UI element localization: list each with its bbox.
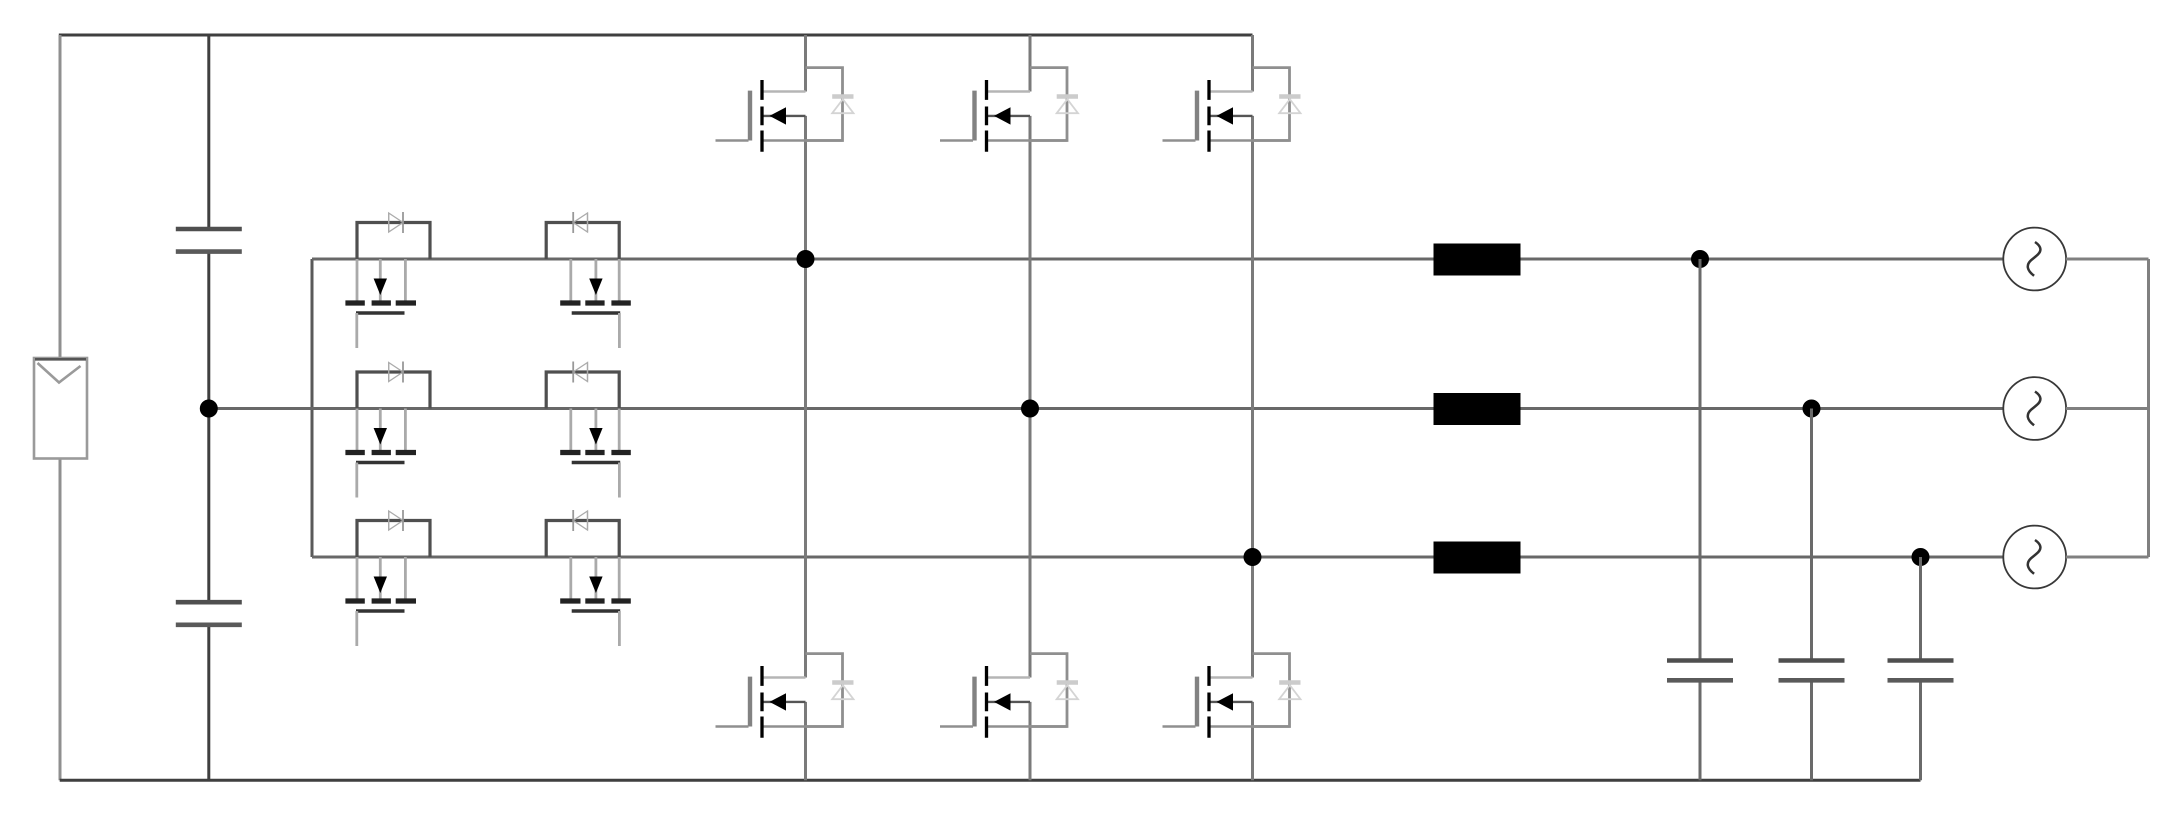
capacitor C1 (upper DC-link): [176, 229, 242, 252]
transistor Q6 (leg C bottom): [1163, 654, 1301, 738]
wire: top DC+ rail: [59, 34, 1253, 37]
wire: DC-link vertical upper: [207, 35, 210, 228]
transistor Q1 (leg A top): [716, 68, 854, 152]
wire: midpoint bus vertical: [311, 259, 314, 557]
wire: AC source A right lead: [2066, 258, 2149, 261]
transistor Q2 (leg B top): [940, 68, 1078, 152]
transistor S1a (bidir cell row A left): [345, 212, 430, 348]
node: DC midpoint: [200, 400, 218, 418]
wire: phase row C: [312, 555, 2004, 558]
transistor Q5 (leg B bottom): [940, 654, 1078, 738]
wire: DC-link vertical lower: [207, 626, 210, 780]
node: leg A / phase A junction: [797, 250, 815, 268]
pv source PV1: [34, 358, 87, 459]
inductor L2: [1434, 393, 1521, 425]
wire: leg A vertical: [804, 35, 807, 780]
ac source Vc: [2003, 526, 2066, 589]
capacitor Cf2 (filter B): [1779, 661, 1845, 681]
capacitor Cf3 (filter C): [1888, 661, 1954, 681]
transistor S1b (bidir cell row A right, mirrored): [546, 212, 631, 348]
transistor Q3 (leg C top): [1163, 68, 1301, 152]
transistor Q4 (leg A bottom): [716, 654, 854, 738]
transistor S3a (bidir cell row C left): [345, 510, 430, 646]
transistor S2a (bidir cell row B left): [345, 362, 430, 498]
wire: DC-link vertical middle: [207, 253, 210, 602]
wire: phase row B from midpoint: [209, 407, 2004, 410]
wire: left vertical from PV to DC- rail: [59, 459, 62, 781]
transistor S3b (bidir cell row C right, mirrored): [546, 510, 631, 646]
node: leg C / phase C junction: [1244, 548, 1262, 566]
wire: filter cap B vertical: [1810, 409, 1813, 781]
wire: AC source C right lead: [2066, 556, 2149, 559]
node: filter cap B junction: [1803, 400, 1821, 418]
ac source Va: [2003, 228, 2066, 291]
wire: AC source B right lead: [2066, 407, 2149, 410]
wire: bottom DC- rail: [60, 779, 1921, 782]
transistor S2b (bidir cell row B right, mirrored): [546, 362, 631, 498]
node: leg B / phase B junction: [1021, 400, 1039, 418]
wire: leg C vertical: [1251, 35, 1254, 780]
inductor L3: [1434, 542, 1521, 574]
wire: filter cap C vertical: [1919, 557, 1922, 780]
node: filter cap A junction: [1691, 250, 1709, 268]
node: filter cap C junction: [1912, 548, 1930, 566]
capacitor Cf1 (filter A): [1667, 661, 1733, 681]
inductor L1: [1434, 244, 1521, 276]
wire: grid neutral bus right vertical: [2147, 259, 2150, 557]
wire: phase row A: [312, 257, 2004, 260]
wire: leg B vertical: [1029, 35, 1032, 780]
capacitor C2 (lower DC-link): [176, 602, 242, 625]
ac source Vb: [2003, 377, 2066, 440]
wire: left vertical from DC+ rail to PV: [59, 35, 62, 358]
wire: filter cap A vertical: [1699, 259, 1702, 780]
